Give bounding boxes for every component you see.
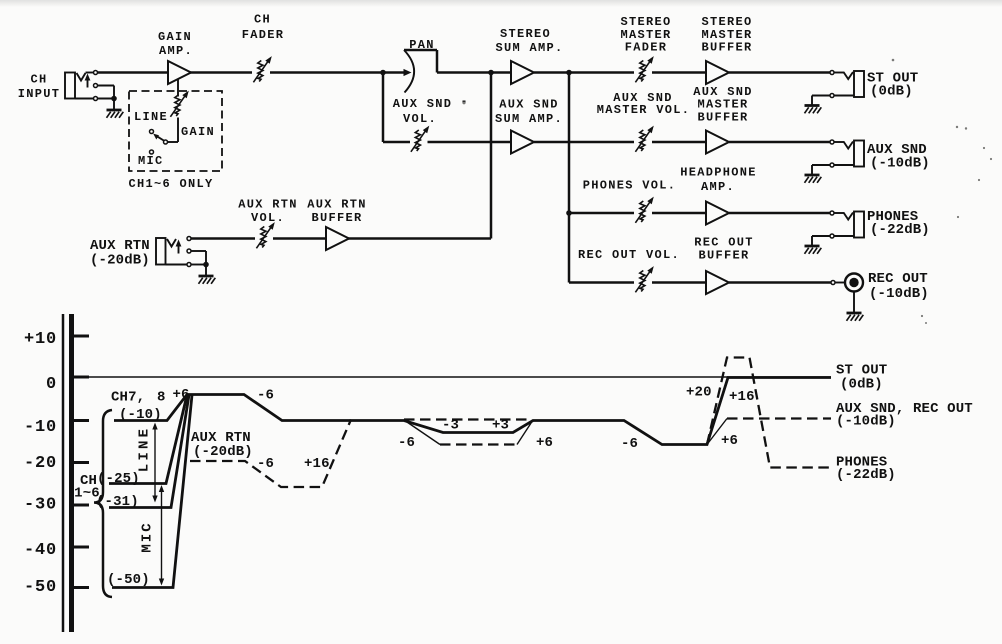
svg-text:+6: +6: [173, 387, 190, 403]
svg-text:STEREO: STEREO: [620, 15, 671, 29]
svg-text:-50: -50: [24, 578, 57, 597]
svg-text:BUFFER: BUFFER: [698, 249, 749, 263]
svg-text:-40: -40: [24, 541, 57, 560]
svg-text:-3: -3: [442, 418, 459, 434]
svg-text:CH7,: CH7,: [111, 390, 145, 406]
svg-text:-6: -6: [257, 456, 274, 472]
svg-text:-20: -20: [24, 454, 57, 473]
svg-text:MIC: MIC: [140, 521, 156, 552]
svg-text:FADER: FADER: [625, 41, 668, 55]
svg-text:STEREO: STEREO: [500, 27, 551, 41]
svg-text:HEADPHONE: HEADPHONE: [680, 166, 757, 180]
svg-text:VOL.: VOL.: [403, 112, 437, 126]
svg-text:SUM AMP.: SUM AMP.: [495, 41, 563, 55]
svg-text:AUX RTN: AUX RTN: [307, 198, 367, 212]
svg-text:-6: -6: [257, 388, 274, 404]
svg-text:(-10dB): (-10dB): [869, 286, 929, 302]
svg-text:(-10dB): (-10dB): [836, 414, 896, 430]
svg-text:+20: +20: [686, 385, 712, 401]
svg-text:(-10): (-10): [119, 407, 162, 423]
svg-text:AUX SND: AUX SND: [393, 97, 453, 111]
svg-text:CH: CH: [254, 13, 271, 27]
svg-text:GAIN: GAIN: [181, 125, 215, 139]
svg-text:+3: +3: [492, 418, 509, 434]
svg-text:(-20dB): (-20dB): [90, 253, 150, 269]
svg-text:-10: -10: [24, 418, 57, 437]
svg-text:AMP.: AMP.: [159, 44, 193, 58]
svg-text:STEREO: STEREO: [701, 15, 752, 29]
svg-text:(-20dB): (-20dB): [193, 444, 253, 460]
svg-text:PHONES VOL.: PHONES VOL.: [583, 179, 677, 193]
svg-text:REC OUT: REC OUT: [868, 271, 928, 287]
svg-text:REC OUT: REC OUT: [694, 236, 754, 250]
svg-text:AMP.: AMP.: [701, 180, 735, 194]
svg-text:LINE: LINE: [134, 110, 168, 124]
svg-text:AUX RTN: AUX RTN: [238, 198, 298, 212]
svg-text:MASTER: MASTER: [697, 98, 748, 112]
svg-text:+16: +16: [304, 456, 330, 472]
svg-text:(-10dB): (-10dB): [870, 156, 930, 172]
svg-text:-6: -6: [398, 435, 415, 451]
svg-text:MASTER VOL.: MASTER VOL.: [597, 103, 691, 117]
svg-text:(-31): (-31): [96, 494, 139, 510]
svg-text:+16: +16: [729, 389, 755, 405]
svg-text:(-50): (-50): [107, 572, 150, 588]
svg-text:CH: CH: [30, 73, 47, 87]
svg-text:MIC: MIC: [138, 154, 164, 168]
svg-text:+10: +10: [24, 330, 57, 349]
svg-text:SUM AMP.: SUM AMP.: [495, 112, 563, 126]
svg-text:BUFFER: BUFFER: [697, 111, 748, 125]
svg-text:GAIN: GAIN: [158, 30, 192, 44]
svg-text:+6: +6: [721, 433, 738, 449]
svg-text:BUFFER: BUFFER: [701, 41, 752, 55]
svg-text:LINE: LINE: [137, 426, 153, 472]
svg-text:(0dB): (0dB): [840, 377, 883, 393]
svg-text:REC OUT VOL.: REC OUT VOL.: [578, 248, 680, 262]
svg-text:-6: -6: [621, 436, 638, 452]
svg-text:CH1~6 ONLY: CH1~6 ONLY: [128, 177, 213, 191]
svg-text:(0dB): (0dB): [870, 84, 913, 100]
svg-text:(-22dB): (-22dB): [836, 467, 896, 483]
svg-text:FADER: FADER: [242, 28, 285, 42]
svg-text:INPUT: INPUT: [18, 87, 61, 101]
svg-text:+6: +6: [536, 435, 553, 451]
svg-text:(-25): (-25): [97, 471, 140, 487]
svg-text:-30: -30: [24, 496, 57, 515]
svg-text:VOL.: VOL.: [251, 211, 285, 225]
svg-text:(-22dB): (-22dB): [870, 222, 930, 238]
svg-text:0: 0: [46, 375, 57, 394]
svg-text:8: 8: [157, 390, 166, 406]
svg-text:AUX SND: AUX SND: [499, 98, 559, 112]
svg-text:BUFFER: BUFFER: [311, 211, 362, 225]
